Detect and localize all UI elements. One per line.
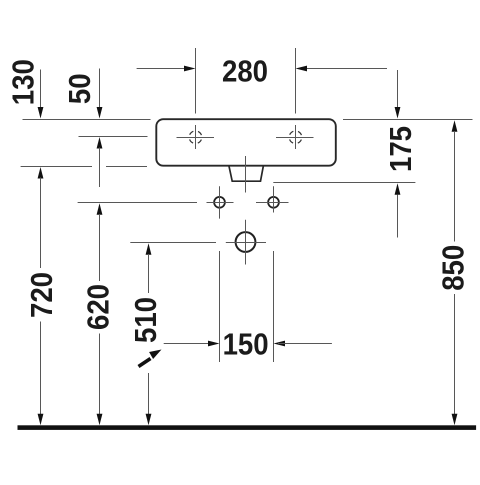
floor line xyxy=(18,425,477,430)
svg-text:175: 175 xyxy=(384,126,419,172)
svg-text:620: 620 xyxy=(81,284,116,330)
extension line rim-top left xyxy=(23,119,151,121)
extension line 175 level xyxy=(273,182,415,184)
extension line 150 right vertical xyxy=(273,251,275,362)
faucet hole left dashed circle xyxy=(189,131,202,144)
dimension 280 right arrow xyxy=(296,66,388,72)
label 130 xyxy=(6,59,41,105)
dimension 50 lower arrow xyxy=(97,137,103,187)
extension line rim-top right xyxy=(343,119,473,121)
extension line fixing hole level xyxy=(78,202,197,204)
svg-text:510: 510 xyxy=(128,297,163,343)
dimension 620 line xyxy=(97,203,103,425)
dimension 510 line xyxy=(146,243,152,425)
fixing hole left xyxy=(207,186,234,218)
svg-text:50: 50 xyxy=(63,73,98,104)
dimension 280 left arrow xyxy=(137,66,196,72)
basin body outline xyxy=(156,119,335,166)
extension line faucet level xyxy=(79,136,148,138)
label 510 xyxy=(128,297,163,343)
dimension 175 lower arrow xyxy=(395,183,401,237)
extension line faucet left vertical xyxy=(195,48,197,114)
svg-text:720: 720 xyxy=(25,272,60,318)
drain hole circle xyxy=(226,220,266,265)
label 150 xyxy=(223,327,269,362)
svg-text:850: 850 xyxy=(436,245,471,291)
dimension 50 upper arrow xyxy=(97,69,103,119)
extension line 150 left vertical xyxy=(219,251,221,362)
dimension 720 line xyxy=(38,167,44,425)
center line through drain sleeve xyxy=(245,156,247,193)
extension line faucet right vertical xyxy=(295,48,297,114)
faucet hole left crosshair xyxy=(177,125,215,149)
fixing hole right xyxy=(256,186,289,212)
dimension 150 right arrow xyxy=(274,341,332,347)
extension line drain level xyxy=(130,242,216,244)
dimension 130 arrow xyxy=(38,70,44,119)
label 175 xyxy=(384,126,419,172)
extension line basin bottom left a xyxy=(21,166,92,168)
faucet hole right dashed circle xyxy=(289,131,302,144)
label 850 xyxy=(436,245,471,291)
dimension 150 left arrow xyxy=(164,341,220,347)
label 280 xyxy=(222,54,268,89)
svg-text:130: 130 xyxy=(6,59,41,105)
svg-text:150: 150 xyxy=(223,327,269,362)
svg-text:280: 280 xyxy=(222,54,268,89)
label 50 xyxy=(63,73,98,104)
label 720 xyxy=(25,272,60,318)
drain leader diagonal arrow xyxy=(139,350,162,367)
dimension 175 upper arrow xyxy=(395,70,401,119)
extension line basin bottom left b xyxy=(106,166,147,168)
faucet hole right crosshair xyxy=(276,125,314,149)
dimension 850 line xyxy=(452,120,458,425)
drain sleeve trapezoid xyxy=(229,166,263,181)
label 620 xyxy=(81,284,116,330)
